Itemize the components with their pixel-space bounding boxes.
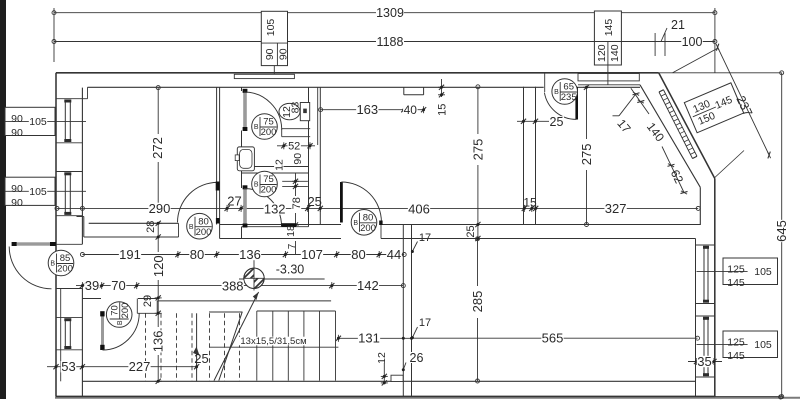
svg-text:75: 75	[263, 117, 274, 128]
svg-text:7: 7	[287, 243, 298, 249]
svg-text:B: B	[50, 261, 55, 268]
svg-text:136: 136	[239, 247, 261, 262]
svg-text:B: B	[554, 89, 559, 96]
svg-text:1309: 1309	[376, 6, 404, 20]
svg-text:191: 191	[119, 247, 141, 262]
svg-text:25: 25	[550, 115, 564, 129]
svg-text:39: 39	[85, 278, 99, 293]
svg-text:90: 90	[264, 48, 276, 60]
svg-text:12: 12	[273, 159, 285, 171]
svg-text:70: 70	[109, 305, 120, 316]
svg-text:200: 200	[120, 303, 131, 319]
svg-text:327: 327	[605, 201, 627, 216]
svg-text:B: B	[189, 224, 194, 231]
svg-text:136: 136	[150, 331, 165, 353]
svg-text:53: 53	[61, 359, 75, 374]
svg-text:120: 120	[151, 255, 166, 277]
svg-text:90: 90	[292, 153, 304, 165]
svg-text:565: 565	[542, 331, 564, 346]
svg-text:290: 290	[149, 201, 171, 216]
svg-text:406: 406	[408, 201, 430, 216]
svg-text:645: 645	[774, 220, 789, 242]
svg-text:90: 90	[11, 197, 23, 209]
svg-text:200: 200	[261, 127, 277, 138]
svg-text:B: B	[353, 220, 358, 227]
svg-text:90: 90	[11, 113, 23, 125]
svg-text:275: 275	[470, 139, 485, 161]
svg-text:145: 145	[603, 19, 615, 37]
svg-text:18: 18	[285, 225, 297, 237]
svg-text:105: 105	[265, 19, 277, 37]
svg-text:80: 80	[198, 216, 209, 227]
svg-text:80: 80	[190, 247, 204, 262]
svg-text:235: 235	[561, 92, 577, 103]
svg-text:200: 200	[261, 185, 277, 196]
svg-text:90: 90	[11, 183, 23, 195]
svg-text:26: 26	[410, 351, 424, 365]
svg-text:107: 107	[301, 247, 323, 262]
svg-text:52: 52	[288, 141, 300, 153]
svg-text:163: 163	[356, 102, 378, 117]
svg-text:142: 142	[357, 278, 379, 293]
svg-text:105: 105	[29, 186, 47, 198]
svg-text:65: 65	[563, 82, 574, 93]
svg-text:80: 80	[351, 247, 365, 262]
svg-text:83: 83	[290, 102, 302, 114]
svg-text:200: 200	[57, 264, 73, 275]
svg-text:78: 78	[291, 197, 303, 209]
svg-text:44: 44	[387, 247, 401, 262]
svg-text:120: 120	[596, 44, 608, 62]
svg-text:388: 388	[222, 279, 244, 294]
svg-text:90: 90	[277, 48, 289, 60]
svg-text:B: B	[254, 124, 259, 131]
svg-text:125: 125	[727, 336, 745, 348]
svg-text:25: 25	[465, 225, 477, 237]
svg-text:200: 200	[360, 223, 376, 234]
svg-text:227: 227	[129, 359, 151, 374]
svg-text:272: 272	[150, 137, 165, 159]
svg-text:-3.30: -3.30	[276, 262, 305, 276]
svg-text:285: 285	[470, 291, 485, 313]
svg-text:200: 200	[196, 227, 212, 238]
svg-text:105: 105	[29, 116, 47, 128]
svg-text:80: 80	[363, 213, 374, 224]
svg-text:13x15,5/31,5см: 13x15,5/31,5см	[240, 336, 306, 347]
svg-text:27: 27	[227, 193, 241, 208]
svg-text:17: 17	[419, 232, 431, 244]
svg-text:105: 105	[754, 339, 772, 351]
svg-text:131: 131	[358, 331, 380, 346]
svg-text:40: 40	[404, 103, 418, 117]
svg-text:1188: 1188	[377, 35, 404, 49]
svg-text:25: 25	[194, 351, 208, 366]
svg-text:15: 15	[523, 195, 537, 209]
svg-text:90: 90	[11, 127, 23, 139]
svg-text:25: 25	[307, 194, 321, 209]
svg-text:140: 140	[609, 44, 621, 62]
svg-text:21: 21	[671, 18, 685, 32]
svg-text:100: 100	[682, 35, 703, 49]
svg-text:17: 17	[419, 317, 431, 329]
svg-text:105: 105	[754, 266, 772, 278]
svg-text:35: 35	[697, 354, 711, 369]
svg-text:70: 70	[111, 278, 125, 293]
svg-text:275: 275	[579, 144, 594, 166]
svg-text:15: 15	[437, 104, 449, 116]
svg-text:85: 85	[60, 253, 71, 264]
svg-text:29: 29	[142, 295, 154, 307]
svg-text:145: 145	[727, 350, 745, 362]
svg-text:B: B	[117, 320, 124, 325]
svg-text:145: 145	[727, 277, 745, 289]
svg-text:75: 75	[263, 174, 274, 185]
svg-text:B: B	[254, 182, 259, 189]
svg-text:12: 12	[376, 352, 388, 364]
svg-text:132: 132	[264, 201, 286, 216]
svg-text:125: 125	[727, 263, 745, 275]
svg-text:28: 28	[145, 221, 157, 233]
